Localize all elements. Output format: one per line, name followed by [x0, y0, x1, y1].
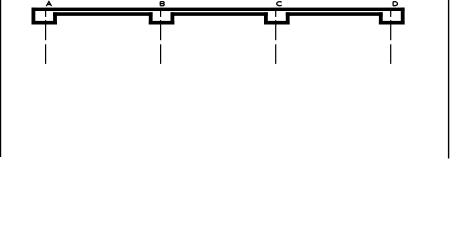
pocket B: left riser	[149, 12, 153, 24]
pocket C: left riser	[264, 12, 268, 24]
beam bottom line segment A-B	[53, 12, 153, 16]
end block D: right wall	[401, 8, 405, 25]
node label B	[160, 2, 164, 6]
beam bottom line segment C-D	[286, 12, 383, 16]
pocket C: right riser	[286, 12, 290, 24]
end block D: left riser	[379, 12, 383, 24]
centerline D	[390, 8, 392, 64]
centerline B	[160, 8, 162, 64]
beam bottom line segment B-C	[171, 12, 268, 16]
end block A: bottom	[32, 21, 57, 25]
pocket B: bottom	[149, 21, 175, 25]
pocket C: bottom	[264, 21, 290, 25]
end block A: left wall	[32, 8, 36, 25]
node label C	[277, 2, 282, 6]
top chord (beam top flange)	[32, 8, 405, 11]
node label A	[46, 2, 51, 7]
left border	[0, 0, 1, 157]
centerline A	[45, 8, 47, 64]
node label D	[393, 2, 397, 6]
end block A: right riser	[53, 12, 57, 24]
end block D: bottom	[379, 21, 405, 25]
pocket B: right riser	[171, 12, 175, 24]
centerline C	[275, 8, 277, 64]
right border	[448, 0, 449, 159]
